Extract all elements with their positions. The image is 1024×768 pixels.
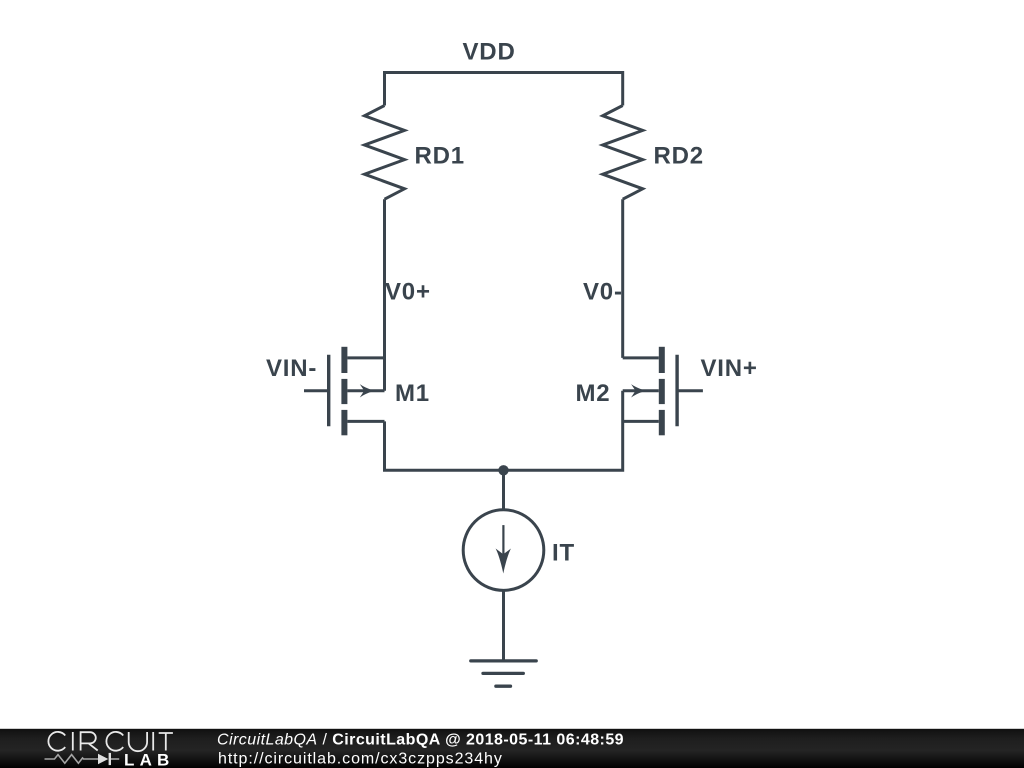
logo diode <box>98 754 108 764</box>
current source IT <box>463 510 544 591</box>
logo text CIRCUIT <box>48 732 172 751</box>
ground <box>471 661 536 686</box>
footer bar <box>0 729 1024 768</box>
svg-text:V0+: V0+ <box>385 278 431 305</box>
svg-text:IT: IT <box>552 540 575 567</box>
transistor M1 <box>304 347 385 436</box>
svg-text:M1: M1 <box>395 380 430 407</box>
svg-text:CircuitLabQA / CircuitLabQA @: CircuitLabQA / CircuitLabQA @ 2018-05-11… <box>217 732 624 749</box>
svg-text:http://circuitlab.com/cx3czpps: http://circuitlab.com/cx3czpps234hy <box>218 751 503 768</box>
svg-text:LAB: LAB <box>124 751 175 768</box>
wire: tail node to IT top <box>502 470 505 510</box>
svg-text:RD1: RD1 <box>415 142 465 169</box>
wire: M1 source down to tail rail <box>385 421 504 470</box>
transistor M2 <box>623 347 703 436</box>
resistor RD2 <box>603 106 643 200</box>
wire: IT bottom to ground <box>502 590 505 661</box>
wire: VDD top rail <box>385 73 623 106</box>
wire: RD2 bottom to M2 drain (node V0-) <box>621 199 624 358</box>
svg-text:VIN+: VIN+ <box>701 355 758 382</box>
resistor RD1 <box>365 106 405 200</box>
svg-text:RD2: RD2 <box>654 142 704 169</box>
svg-text:V0-: V0- <box>583 278 623 305</box>
svg-text:VDD: VDD <box>463 38 516 65</box>
wire: RD1 bottom to M1 drain and body (node V0+) <box>383 199 386 391</box>
logo resistor squiggle <box>45 755 99 764</box>
junction: tail node <box>498 465 508 475</box>
svg-text:VIN-: VIN- <box>266 355 317 382</box>
wire: M2 body/source down to tail rail <box>504 391 623 471</box>
svg-text:M2: M2 <box>576 380 611 407</box>
